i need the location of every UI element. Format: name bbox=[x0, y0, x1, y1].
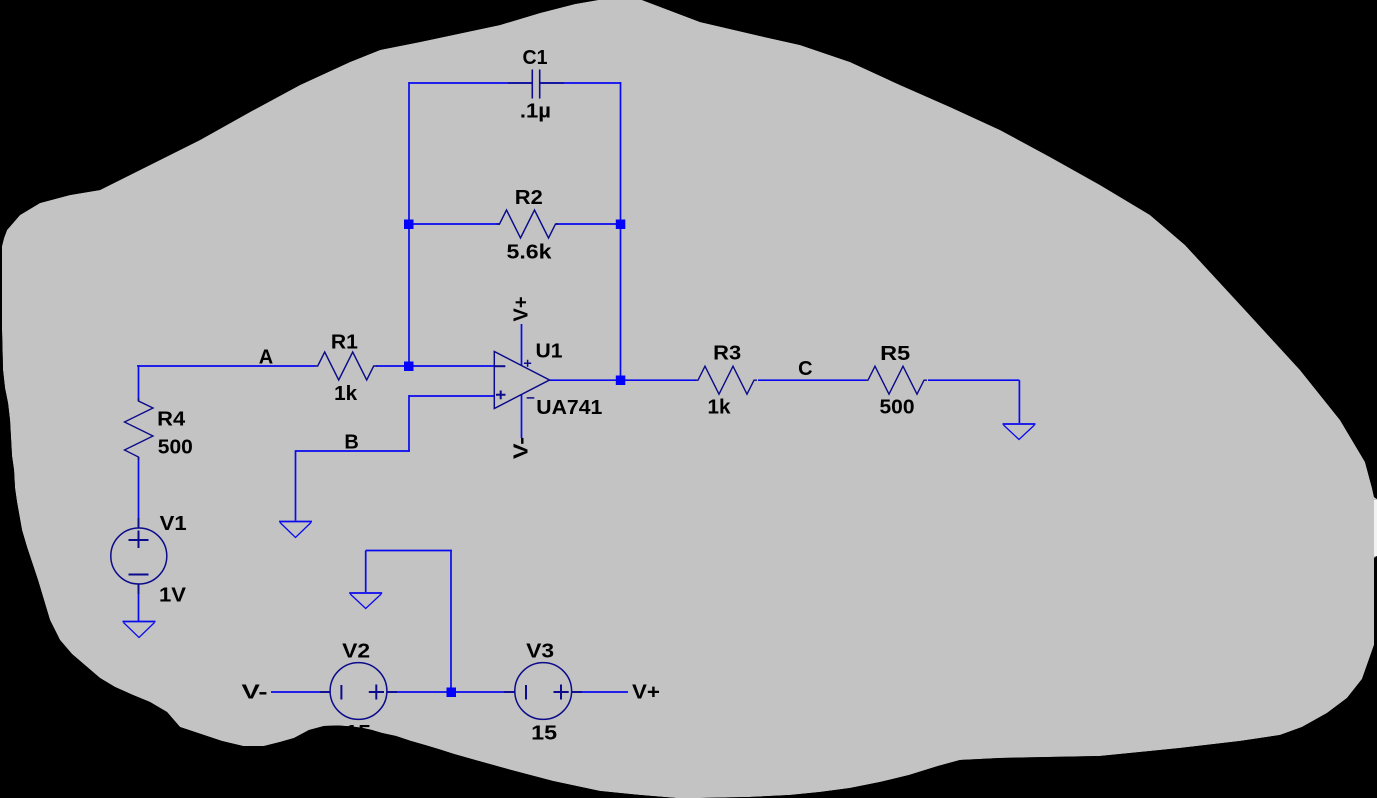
wire left branch R4 V1 bbox=[138, 366, 140, 621]
svg-text:1k: 1k bbox=[708, 397, 732, 419]
svg-text:R1: R1 bbox=[331, 332, 358, 354]
svg-text:V3: V3 bbox=[526, 641, 554, 663]
junction supplies bbox=[447, 688, 457, 698]
resistor R1 bbox=[315, 352, 377, 380]
ground above supplies bbox=[349, 593, 382, 609]
ground under V1 bbox=[123, 622, 156, 638]
capacitor C1 bbox=[508, 70, 564, 99]
source V1 bbox=[111, 518, 167, 594]
wire R2 row bbox=[409, 223, 621, 225]
ground node B bbox=[279, 522, 312, 538]
resistor R5 bbox=[865, 366, 927, 394]
wire op-amp power bbox=[521, 324, 523, 438]
resistor R4 bbox=[125, 398, 154, 460]
svg-text:1k: 1k bbox=[334, 383, 358, 405]
svg-text:R2: R2 bbox=[515, 187, 543, 209]
svg-text:5.6k: 5.6k bbox=[507, 242, 553, 264]
wire top feedback loop bbox=[409, 82, 621, 381]
svg-text:V-: V- bbox=[511, 437, 533, 459]
svg-text:500: 500 bbox=[158, 437, 193, 459]
svg-text:C1: C1 bbox=[523, 47, 548, 69]
svg-text:U1: U1 bbox=[536, 341, 563, 363]
svg-text:B: B bbox=[344, 432, 358, 454]
svg-text:R3: R3 bbox=[713, 343, 741, 365]
wire noninverting input bbox=[409, 395, 494, 451]
svg-text:V+: V+ bbox=[511, 297, 533, 322]
svg-text:A: A bbox=[259, 347, 273, 369]
wire output row bbox=[550, 380, 1020, 423]
svg-text:R4: R4 bbox=[157, 409, 186, 431]
svg-text:R5: R5 bbox=[880, 343, 910, 365]
op-amp U1 bbox=[494, 352, 549, 409]
wire supply row bbox=[271, 691, 628, 693]
wire node B bbox=[296, 451, 411, 521]
svg-text:V+: V+ bbox=[632, 682, 660, 704]
resistor R2 bbox=[497, 210, 559, 238]
svg-text:V2: V2 bbox=[342, 641, 370, 663]
source V3 bbox=[504, 663, 582, 720]
ground right of R5 bbox=[1003, 424, 1036, 440]
source V2 bbox=[320, 663, 397, 720]
junction R2 left bbox=[404, 220, 414, 230]
junction output bbox=[616, 376, 626, 386]
white sliver at right edge bbox=[1374, 500, 1377, 556]
svg-text:1V: 1V bbox=[159, 585, 187, 607]
svg-text:V-: V- bbox=[242, 682, 268, 704]
junction R2 right bbox=[616, 220, 626, 230]
svg-text:C: C bbox=[798, 358, 812, 380]
wire node A row bbox=[138, 365, 494, 366]
resistor R3 bbox=[695, 366, 757, 394]
junction inverting input bbox=[404, 362, 414, 372]
wire supplies ground link bbox=[366, 551, 452, 693]
svg-text:500: 500 bbox=[880, 397, 915, 419]
svg-text:V1: V1 bbox=[160, 513, 187, 535]
svg-text:.1µ: .1µ bbox=[520, 101, 551, 123]
svg-text:UA741: UA741 bbox=[536, 397, 602, 419]
svg-text:15: 15 bbox=[531, 723, 557, 745]
